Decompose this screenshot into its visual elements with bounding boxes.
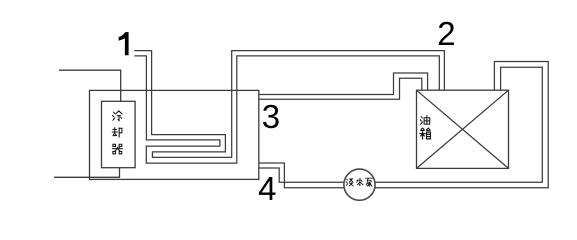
svg-text:3: 3	[262, 98, 280, 135]
泵	[365, 178, 373, 186]
pipe 4 inner wall	[259, 67, 543, 182]
cooler core box	[102, 101, 136, 167]
油	[420, 116, 429, 125]
oil tank diagonal 2	[417, 90, 509, 168]
器	[112, 144, 122, 154]
cooler shell box	[90, 90, 259, 179]
却	[112, 128, 122, 138]
pipe 1 + pipe 2, inner wall	[134, 56, 439, 163]
label 淡水泵 (fresh water pump)	[346, 178, 373, 186]
oil tank box	[417, 90, 509, 168]
label 冷却器 (cooler) vertical text	[112, 111, 122, 154]
水	[357, 178, 364, 185]
pipe 1: coil inlet + serpentine + pipe 2 to oil tank, outer wall	[134, 51, 444, 158]
wire: cooling water inlet line (top left)	[59, 70, 121, 101]
pipe 4: cooler outlet + bottom run + right riser to tank, outer wall	[259, 62, 548, 188]
svg-text:4: 4	[258, 170, 276, 207]
svg-text:2: 2	[437, 15, 455, 52]
pump circle	[344, 169, 375, 200]
淡	[346, 178, 353, 186]
oil tank diagonal 1	[417, 90, 509, 168]
label 油箱 (oil tank)	[420, 116, 430, 140]
wire: cooling water outlet line (bottom left)	[54, 168, 120, 178]
pipe 3: oil return from tank to cooler shell, upper wall	[259, 73, 428, 95]
冷	[113, 111, 123, 121]
node 1 label	[119, 32, 129, 55]
pipe 3 lower wall	[259, 78, 422, 99]
箱	[420, 128, 430, 139]
